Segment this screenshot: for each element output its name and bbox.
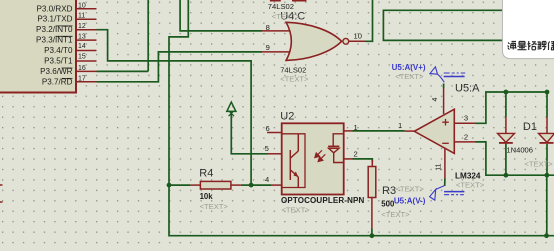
- svg-text:R3: R3: [382, 185, 396, 197]
- svg-text:OPTOCOUPLER-NPN: OPTOCOUPLER-NPN: [281, 196, 365, 205]
- svg-text:P3.1/TXD: P3.1/TXD: [37, 15, 72, 24]
- svg-text:17: 17: [78, 75, 86, 82]
- svg-text:<TEXT>: <TEXT>: [524, 159, 553, 168]
- svg-text:15: 15: [78, 54, 86, 61]
- svg-text:P3.2/INT0: P3.2/INT0: [36, 25, 73, 34]
- svg-text:74LS02: 74LS02: [280, 65, 306, 74]
- svg-text:10k: 10k: [200, 192, 214, 201]
- svg-text:U2: U2: [280, 111, 294, 123]
- svg-text:4: 4: [265, 175, 269, 184]
- svg-text:U5:A(V+): U5:A(V+): [392, 63, 426, 72]
- svg-text:5: 5: [265, 144, 269, 153]
- svg-text:R4: R4: [199, 167, 213, 179]
- svg-text:8: 8: [266, 23, 270, 32]
- svg-text:12: 12: [78, 23, 86, 30]
- svg-text:13: 13: [78, 34, 86, 41]
- svg-text:2: 2: [464, 133, 468, 142]
- svg-text:<TEXT>: <TEXT>: [280, 75, 309, 84]
- svg-text:U5:A: U5:A: [455, 82, 480, 94]
- svg-text:<TEXT>: <TEXT>: [396, 184, 425, 193]
- svg-text:P3.5/T1: P3.5/T1: [44, 57, 73, 66]
- svg-text:P3.3/INT1: P3.3/INT1: [36, 36, 73, 45]
- svg-text:2: 2: [354, 149, 358, 158]
- svg-text:P3.0/RXD: P3.0/RXD: [37, 4, 73, 13]
- svg-text:11: 11: [436, 163, 443, 170]
- svg-text:3: 3: [464, 114, 468, 123]
- svg-text:<TEXT>: <TEXT>: [272, 12, 301, 21]
- svg-text:<TEXT>: <TEXT>: [395, 72, 424, 81]
- svg-text:<TEXT>: <TEXT>: [381, 210, 410, 219]
- svg-text:1: 1: [398, 121, 402, 130]
- svg-text:9: 9: [266, 43, 270, 52]
- svg-text:D1: D1: [523, 121, 537, 133]
- svg-text:LM324: LM324: [455, 172, 481, 181]
- svg-text:11: 11: [78, 13, 85, 20]
- svg-text:1: 1: [354, 123, 358, 132]
- svg-text:14: 14: [78, 43, 86, 50]
- svg-text:16: 16: [78, 65, 86, 72]
- svg-text:<TEXT>: <TEXT>: [281, 206, 310, 215]
- svg-text:P3.4/T0: P3.4/T0: [44, 46, 73, 55]
- svg-text:<TEXT>: <TEXT>: [200, 202, 229, 211]
- svg-text:10: 10: [354, 32, 362, 41]
- svg-text:4: 4: [432, 98, 439, 102]
- svg-text:<TEXT>: <TEXT>: [456, 181, 485, 190]
- svg-text:10: 10: [78, 2, 86, 9]
- svg-text:1N4006: 1N4006: [506, 146, 533, 155]
- svg-text:U5:A(V-): U5:A(V-): [394, 197, 426, 206]
- svg-text:6: 6: [266, 124, 270, 133]
